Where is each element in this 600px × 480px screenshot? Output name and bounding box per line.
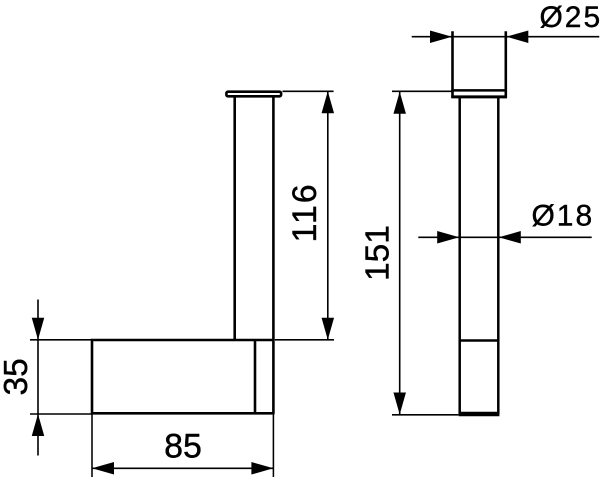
dim 151: dimension line: [399, 91, 401, 415]
right view: cap bottom band upper line: [451, 89, 507, 92]
svg-text:85: 85: [164, 427, 202, 465]
right view: post left outline: [458, 98, 461, 414]
dim 151: bottom extension line: [392, 414, 459, 416]
dim 85: right extension line: [272, 414, 274, 477]
left view: top cap flange: [226, 92, 281, 97]
left view: arm inner edge line: [254, 340, 257, 413]
dim 85: arrowhead left: [92, 462, 114, 475]
dim 116: dimension line: [327, 91, 329, 339]
right view: bottom end bar: [459, 412, 500, 417]
dim 35: lower extension line: [30, 413, 92, 415]
dim 85: dimension line: [92, 467, 273, 469]
right view: joint line: [459, 339, 500, 342]
dim Ø18: arrowhead pointing right: [437, 231, 459, 244]
dim 85: left extension line: [91, 414, 93, 477]
right view: cap bottom band lower line: [451, 95, 507, 98]
right view: cap left outline: [451, 31, 454, 98]
dim 35: upper extension line: [30, 339, 92, 341]
svg-text:116: 116: [286, 182, 324, 242]
svg-text:151: 151: [359, 225, 396, 281]
dim 151: arrowhead up: [393, 92, 406, 114]
dim 116: top extension line: [283, 90, 334, 92]
dim 116: arrowhead up: [322, 91, 335, 113]
dim Ø25: arrowhead pointing left: [506, 30, 528, 43]
dim 35: arrowhead up: [32, 414, 45, 436]
left view: post left outline: [233, 97, 236, 341]
dim 35: dimension line: [37, 300, 39, 456]
dim 151: top extension line: [392, 90, 453, 92]
dim 116: arrowhead down: [322, 318, 335, 340]
svg-text:Ø18: Ø18: [531, 199, 594, 232]
dim Ø18: arrowhead pointing left: [499, 231, 521, 244]
left view: post right outline: [272, 97, 275, 415]
dim 151: arrowhead down: [393, 393, 406, 415]
dim Ø25: arrowhead pointing right: [430, 30, 452, 43]
svg-text:Ø25: Ø25: [539, 1, 600, 34]
dim Ø25: dimension line: [412, 36, 600, 38]
left view: holder arm box: [92, 340, 273, 413]
dim 116: bottom extension line: [275, 339, 334, 341]
right view: cap right outline: [504, 31, 507, 98]
dim 35: arrowhead down: [32, 318, 45, 340]
dim Ø18: dimension line with crossing: [418, 236, 591, 238]
dim 85: arrowhead right: [251, 462, 273, 475]
svg-text:35: 35: [0, 358, 35, 395]
right view: post right outline: [497, 98, 500, 414]
